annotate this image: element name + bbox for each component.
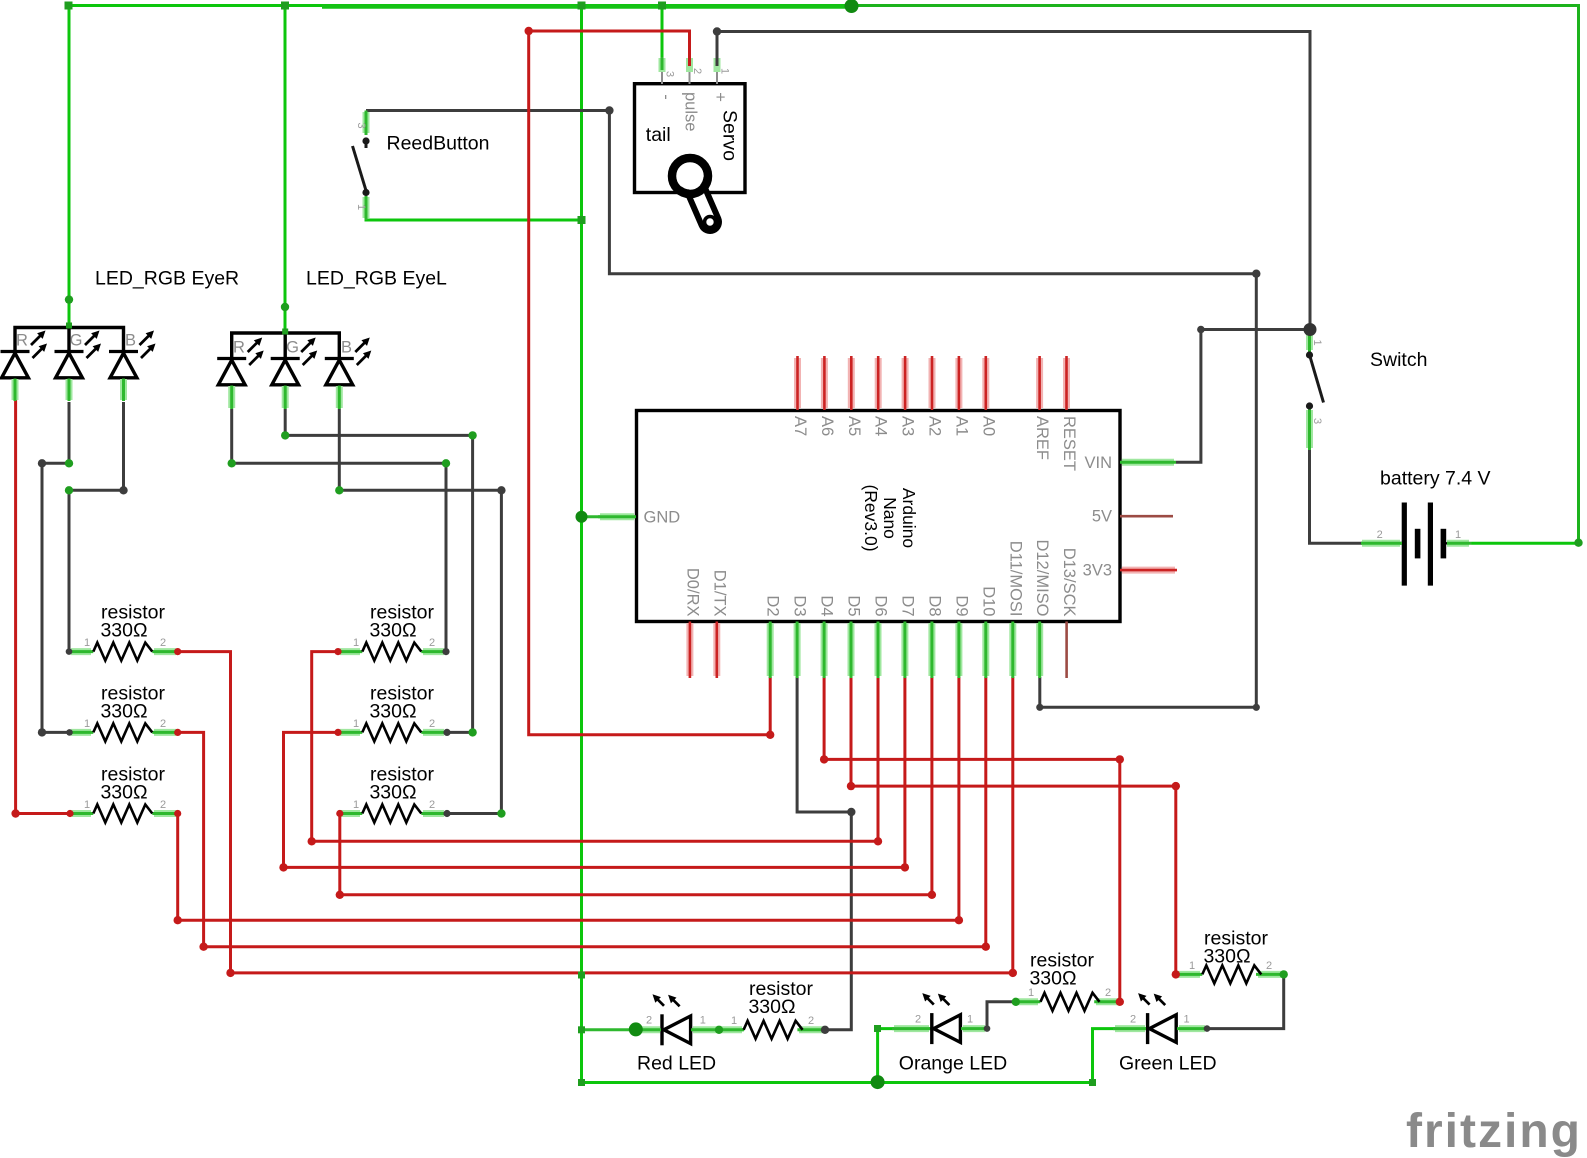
svg-text:A5: A5 — [845, 416, 863, 436]
LED_RGB EyeR B diode — [109, 331, 156, 379]
svg-text:2: 2 — [160, 799, 166, 811]
node R7 pin1 green — [1012, 998, 1020, 1006]
node Green LED pin1 end — [1204, 1025, 1211, 1032]
svg-text:330Ω: 330Ω — [100, 781, 147, 803]
nano pin D13/SCK stub — [1065, 622, 1068, 679]
svg-text:Servo: Servo — [719, 110, 741, 161]
svg-text:D5: D5 — [845, 595, 863, 616]
nano pin D8 stub — [928, 622, 935, 679]
nano pin D10 stub — [982, 622, 989, 679]
svg-text:fritzing: fritzing — [1406, 1105, 1582, 1158]
ReedButton pin1 stub — [363, 196, 370, 220]
wire EyeL red cathode to R4 pin2 — [232, 409, 446, 652]
svg-text:VIN: VIN — [1084, 454, 1112, 472]
svg-text:1: 1 — [353, 718, 359, 730]
node R4 pin2 top — [442, 648, 449, 655]
node Red LED pin2 junction — [629, 1022, 643, 1036]
node R2 pin1 — [66, 729, 73, 736]
node servo pulse wire bend — [525, 27, 533, 35]
svg-text:3: 3 — [1311, 418, 1323, 424]
svg-text:330Ω: 330Ω — [1203, 945, 1250, 967]
node switch pin1 junction — [1304, 323, 1317, 336]
svg-text:1: 1 — [967, 1013, 973, 1025]
LED_RGB EyeL common bracket — [232, 333, 340, 357]
node EyeR anode bend — [65, 295, 73, 303]
ReedButton contact tail — [365, 141, 368, 148]
nano pin A1 stub — [955, 356, 962, 410]
svg-text:3V3: 3V3 — [1083, 562, 1112, 580]
svg-text:B: B — [341, 339, 352, 357]
svg-text:2: 2 — [429, 799, 435, 811]
svg-text:1: 1 — [355, 204, 367, 210]
battery plate short right — [1441, 529, 1447, 559]
wire bottom GND bus — [582, 1081, 1093, 1084]
node EyeR G wire bends — [38, 459, 46, 467]
switch contact 3 — [1306, 402, 1313, 409]
svg-text:D13/SCK: D13/SCK — [1060, 548, 1078, 617]
servo pin1 lead — [716, 57, 718, 84]
nano pin GND stub glow — [598, 513, 636, 520]
wire EyeL blue cathode to R6 pin2 — [339, 409, 501, 814]
node D4 bends — [820, 755, 828, 763]
wire EyeR red cathode to R3 — [16, 400, 70, 814]
node right edge battery corner — [1574, 539, 1582, 547]
wire Red LED pin1 to resistor R9 — [691, 1028, 744, 1031]
svg-text:+: + — [711, 92, 729, 102]
LED_RGB EyeL G top lead — [284, 333, 287, 357]
node R5 pin1 bundle — [334, 729, 341, 736]
node R5 pin2 — [443, 729, 450, 736]
wire GND top bus overlay — [322, 4, 852, 9]
wire servo pin3 drop — [661, 6, 664, 63]
LED_RGB EyeL R pin stub — [228, 386, 235, 410]
svg-text:A7: A7 — [791, 416, 809, 436]
nano pin A6 stub — [821, 356, 828, 410]
wire D3 to Red LED resistor R9 — [797, 677, 851, 1030]
node EyeL R wire bends — [228, 459, 236, 467]
wire servo pulse to D2 — [529, 31, 771, 735]
svg-text:-: - — [657, 94, 675, 100]
ReedButton lever — [353, 146, 367, 191]
svg-text:5V: 5V — [1092, 508, 1112, 526]
nano pin A0 stub — [982, 356, 989, 410]
node top bus EyeL — [281, 2, 289, 10]
svg-text:G: G — [286, 339, 299, 357]
nano pin D4 stub — [821, 622, 828, 679]
wire D4 to R7 pin2 — [824, 677, 1120, 1002]
servo body — [635, 84, 746, 193]
nano pin VIN stub — [1120, 459, 1176, 466]
svg-text:A4: A4 — [872, 416, 890, 436]
node top bus GND vertical — [578, 2, 586, 10]
switch pin1 stub — [1306, 330, 1313, 352]
wire servo pin1 to switch — [717, 32, 1310, 331]
wire GND top bus left — [69, 4, 852, 7]
LED_RGB EyeR G top lead — [67, 328, 70, 351]
node EyeR bracket junction — [66, 323, 72, 329]
diode Red LED — [653, 994, 691, 1045]
Green LED pin1 stub — [1177, 1025, 1207, 1032]
svg-text:AREF: AREF — [1033, 416, 1051, 460]
svg-text:1: 1 — [731, 1015, 737, 1027]
svg-text:R: R — [233, 339, 245, 357]
svg-text:A2: A2 — [926, 416, 944, 436]
svg-text:1: 1 — [1028, 987, 1034, 999]
svg-text:2: 2 — [915, 1013, 921, 1025]
battery plate long right — [1428, 503, 1433, 586]
svg-text:330Ω: 330Ω — [100, 700, 147, 722]
svg-text:2: 2 — [1266, 960, 1272, 972]
wire switch pin3 to battery pin2 — [1310, 450, 1404, 543]
nano pin 5V stub — [1120, 515, 1173, 518]
svg-text:R: R — [16, 332, 28, 350]
svg-text:330Ω: 330Ω — [369, 620, 416, 642]
wire R4 pin1 to D6 — [312, 652, 878, 842]
switch lever — [1310, 357, 1324, 403]
node reed wire mid bend — [1252, 270, 1260, 278]
svg-text:ReedButton: ReedButton — [387, 133, 490, 155]
svg-text:D8: D8 — [925, 595, 943, 616]
wire battery pin1 to right edge — [1472, 542, 1579, 545]
nano pin AREF stub — [1036, 356, 1043, 410]
battery pin2 stub glow — [1361, 540, 1402, 547]
nano pin D3 stub — [794, 622, 801, 679]
nano pin A2 stub — [929, 356, 936, 410]
nano pin D7 stub — [901, 622, 908, 679]
wire R1 pin2 to D11/MOSI — [178, 652, 1013, 973]
ReedButton contact 1 — [362, 189, 369, 196]
svg-text:2: 2 — [429, 637, 435, 649]
LED_RGB EyeL G diode — [271, 338, 318, 386]
svg-text:D10: D10 — [979, 586, 997, 616]
servo pin3 lead — [661, 57, 663, 84]
op-amp U1 Arduino Nano body — [637, 411, 1121, 622]
node R8 pin2 green — [1280, 970, 1288, 978]
svg-text:330Ω: 330Ω — [100, 620, 147, 642]
svg-text:GND: GND — [644, 508, 681, 526]
node top bus servo3 — [658, 2, 666, 10]
resistor R9 330 red — [719, 1026, 825, 1033]
wire Orange LED pin1 to R7 — [987, 1002, 1016, 1029]
svg-text:RESET: RESET — [1060, 416, 1078, 471]
node orange cathode bend — [874, 1025, 881, 1032]
node GND vertical bottom corner — [578, 1079, 585, 1086]
svg-text:G: G — [70, 332, 83, 350]
wire GND pin to vertical — [582, 515, 637, 518]
wire Green LED cathode to bottom bus — [1093, 1029, 1147, 1083]
node top bus mid junction — [845, 0, 859, 13]
svg-text:D11/MOSI: D11/MOSI — [1006, 541, 1024, 617]
nano pin A3 stub — [902, 356, 909, 410]
svg-text:2: 2 — [429, 718, 435, 730]
LED_RGB EyeR R pin stub — [12, 379, 19, 402]
node VIN wire bend — [1197, 326, 1205, 334]
node R6 pin2 — [443, 810, 450, 817]
node bottom bus right corner — [1089, 1079, 1096, 1086]
wire Red LED pin2 to GND vertical — [582, 1028, 638, 1031]
svg-text:1: 1 — [84, 799, 90, 811]
node R1 pin2 bundle — [174, 648, 181, 655]
battery pin1 lead — [1446, 542, 1472, 544]
Red LED pin2 stub — [637, 1026, 661, 1033]
LED_RGB EyeR G diode — [55, 331, 102, 379]
resistor R4 330 EyeL red — [338, 648, 447, 655]
wire R6 pin1 to D8 — [340, 677, 932, 895]
nano pin D5 stub — [848, 622, 855, 679]
svg-text:Green LED: Green LED — [1119, 1053, 1217, 1075]
switch contact 1 — [1306, 351, 1313, 358]
node EyeL G wire bends — [281, 431, 289, 439]
svg-text:LED_RGB EyeR: LED_RGB EyeR — [95, 268, 239, 290]
wire GND top bus right to right edge — [852, 6, 1579, 544]
svg-text:tail: tail — [646, 124, 671, 146]
svg-text:330Ω: 330Ω — [369, 781, 416, 803]
battery plate long left — [1402, 503, 1407, 586]
node EyeL B wire bends — [335, 486, 343, 494]
svg-text:A0: A0 — [979, 416, 997, 436]
svg-text:D6: D6 — [872, 595, 890, 616]
node res9 pin2 — [821, 1026, 829, 1034]
svg-text:D7: D7 — [898, 595, 916, 616]
svg-text:1: 1 — [84, 718, 90, 730]
resistor R2 330 EyeR green — [69, 729, 178, 736]
svg-text:B: B — [125, 332, 136, 350]
node R3 pin2 bundle — [174, 810, 181, 817]
resistor R3 330 EyeR red — [70, 810, 178, 817]
svg-text:330Ω: 330Ω — [748, 996, 795, 1018]
svg-text:2: 2 — [160, 637, 166, 649]
wire R8 pin2 to Green LED pin1 — [1207, 974, 1284, 1028]
node D2 wire bend — [766, 731, 774, 739]
svg-text:pulse: pulse — [682, 92, 700, 131]
ReedButton pin3 stub — [363, 111, 370, 136]
svg-text:1: 1 — [353, 637, 359, 649]
node D3 wire bends — [847, 808, 855, 816]
node EyeR red bend — [11, 809, 19, 817]
svg-text:D12/MISO: D12/MISO — [1033, 539, 1051, 616]
svg-text:1: 1 — [719, 68, 731, 74]
svg-text:1: 1 — [1189, 960, 1195, 972]
svg-text:Nano: Nano — [880, 497, 900, 539]
wire ReedButton to D12/MISO net — [609, 111, 1256, 708]
nano pin D0/RX stub — [686, 622, 693, 679]
node Orange LED pin1 end — [984, 1025, 991, 1032]
svg-text:Red LED: Red LED — [637, 1053, 716, 1075]
node R4 pin1 bundle — [334, 648, 341, 655]
svg-text:D9: D9 — [952, 595, 970, 616]
node R2 pin2 bundle — [174, 729, 181, 736]
node GND pin junction — [576, 511, 588, 523]
svg-text:2: 2 — [1377, 529, 1383, 541]
LED_RGB EyeL R diode — [217, 338, 264, 386]
svg-text:1: 1 — [1311, 339, 1323, 345]
node reed wire lower bends — [1253, 704, 1260, 711]
svg-text:D2: D2 — [764, 595, 782, 616]
node R6 pin1 bundle — [336, 810, 343, 817]
svg-text:3: 3 — [664, 71, 676, 77]
svg-text:1: 1 — [84, 637, 90, 649]
wire R5 pin1 to D7 — [284, 677, 905, 867]
resistor R7 330 orange — [1015, 998, 1120, 1005]
servo horn arm — [690, 176, 710, 222]
node servo pin1 wire bend — [713, 27, 721, 35]
svg-text:Arduino: Arduino — [899, 488, 919, 548]
svg-text:2: 2 — [1105, 987, 1111, 999]
node EyeL anode bend — [281, 303, 289, 311]
svg-text:2: 2 — [808, 1015, 814, 1027]
wire EyeL common anode drop — [284, 6, 287, 332]
wire EyeR common anode drop — [68, 6, 71, 327]
LED_RGB EyeR G pin stub — [66, 379, 73, 402]
LED_RGB EyeR common bracket — [15, 328, 124, 351]
battery plate short left — [1415, 529, 1421, 559]
node EyeL bracket junction — [282, 329, 288, 335]
svg-text:1: 1 — [700, 1015, 706, 1027]
nano pin D11/MOSI stub — [1009, 622, 1016, 679]
svg-text:A1: A1 — [952, 416, 970, 436]
nano pin D9 stub — [955, 622, 962, 679]
diode Green LED — [1138, 993, 1176, 1044]
svg-text:A3: A3 — [899, 416, 917, 436]
wire D5 to R8 pin1 — [851, 677, 1176, 974]
nano pin D2 stub — [767, 622, 774, 679]
LED_RGB EyeR R diode — [1, 331, 48, 379]
servo horn hub — [672, 158, 708, 194]
nano pin D6 stub — [875, 622, 882, 679]
switch pin3 stub — [1306, 409, 1313, 450]
node red LED pin1 green — [715, 1026, 723, 1034]
wire EyeR blue cathode to R1 — [69, 402, 124, 652]
node R1 pin1 — [66, 648, 73, 655]
LED_RGB EyeL B diode — [325, 338, 372, 386]
node EyeR B wire bends — [119, 486, 127, 494]
svg-text:2: 2 — [646, 1015, 652, 1027]
resistor R1 330 EyeR blue — [69, 648, 178, 655]
wire EyeR green cathode to R2 — [42, 402, 70, 732]
svg-text:2: 2 — [160, 718, 166, 730]
Red LED pin1 stub — [691, 1026, 719, 1033]
svg-text:330Ω: 330Ω — [1029, 968, 1076, 990]
node R3 pin1 — [66, 810, 73, 817]
Green LED pin2 stub — [1113, 1025, 1146, 1032]
resistor R8 330 green — [1176, 971, 1284, 978]
wire R3 pin2 to D9 — [178, 677, 959, 920]
wire R2 pin2 to D10 — [178, 677, 986, 947]
Orange LED pin1 stub — [961, 1025, 987, 1032]
LED_RGB EyeL B pin stub — [336, 386, 343, 410]
servo pin2 lead — [689, 57, 691, 84]
svg-text:D3: D3 — [791, 595, 809, 616]
svg-text:(Rev3.0): (Rev3.0) — [861, 484, 881, 551]
node GND vertical RedLED corner — [578, 1026, 585, 1033]
svg-text:1: 1 — [1183, 1013, 1189, 1025]
nano title block — [861, 484, 919, 551]
svg-text:battery 7.4 V: battery 7.4 V — [1380, 468, 1491, 490]
wire GND long vertical — [580, 6, 583, 1083]
nano pin 3V3 stub — [1120, 567, 1177, 574]
svg-text:330Ω: 330Ω — [369, 700, 416, 722]
servo horn hole — [705, 217, 716, 228]
node ReedButton to GND junction — [578, 216, 586, 224]
svg-text:Orange LED: Orange LED — [899, 1053, 1007, 1075]
node reed top wire bend — [605, 106, 613, 114]
svg-text:1: 1 — [353, 799, 359, 811]
wire VIN to switch — [1176, 330, 1310, 463]
diode Orange LED — [922, 993, 960, 1044]
nano pin A5 stub — [848, 356, 855, 410]
svg-text:D1/TX: D1/TX — [710, 570, 728, 617]
nano pin D1/TX stub — [713, 622, 720, 679]
wire ReedButton pin1 to GND vertical — [366, 214, 582, 220]
LED_RGB EyeR B pin stub — [120, 379, 127, 402]
nano pin D12/MISO stub — [1036, 622, 1043, 679]
node top bus EyeR — [65, 2, 73, 10]
node bottom bus orange junction — [871, 1075, 885, 1089]
svg-text:2: 2 — [1130, 1013, 1136, 1025]
nano pin RESET stub — [1063, 356, 1070, 410]
nano pin A4 stub — [875, 356, 882, 410]
svg-text:LED_RGB EyeL: LED_RGB EyeL — [306, 268, 447, 290]
wire ReedButton pin3 top — [366, 109, 609, 112]
svg-text:D0/RX: D0/RX — [683, 568, 701, 617]
node GND vertical bend lower — [578, 972, 585, 979]
LED_RGB EyeL G pin stub — [282, 386, 289, 410]
svg-text:D4: D4 — [818, 595, 836, 616]
resistor R6 330 EyeL blue — [340, 810, 447, 817]
svg-text:Switch: Switch — [1370, 349, 1427, 371]
svg-text:1: 1 — [1455, 529, 1461, 541]
svg-text:3: 3 — [355, 122, 367, 128]
svg-text:A6: A6 — [818, 416, 836, 436]
nano pin A7 stub — [794, 356, 801, 410]
node D5 bends — [847, 782, 855, 790]
wire Orange LED cathode to bottom bus — [878, 1029, 931, 1083]
ReedButton contact 3 — [362, 137, 369, 144]
wire EyeL green cathode to R5 pin2 — [285, 409, 472, 732]
Orange LED pin2 stub — [892, 1025, 930, 1032]
resistor R5 330 EyeL green — [338, 729, 447, 736]
svg-text:2: 2 — [691, 68, 703, 74]
